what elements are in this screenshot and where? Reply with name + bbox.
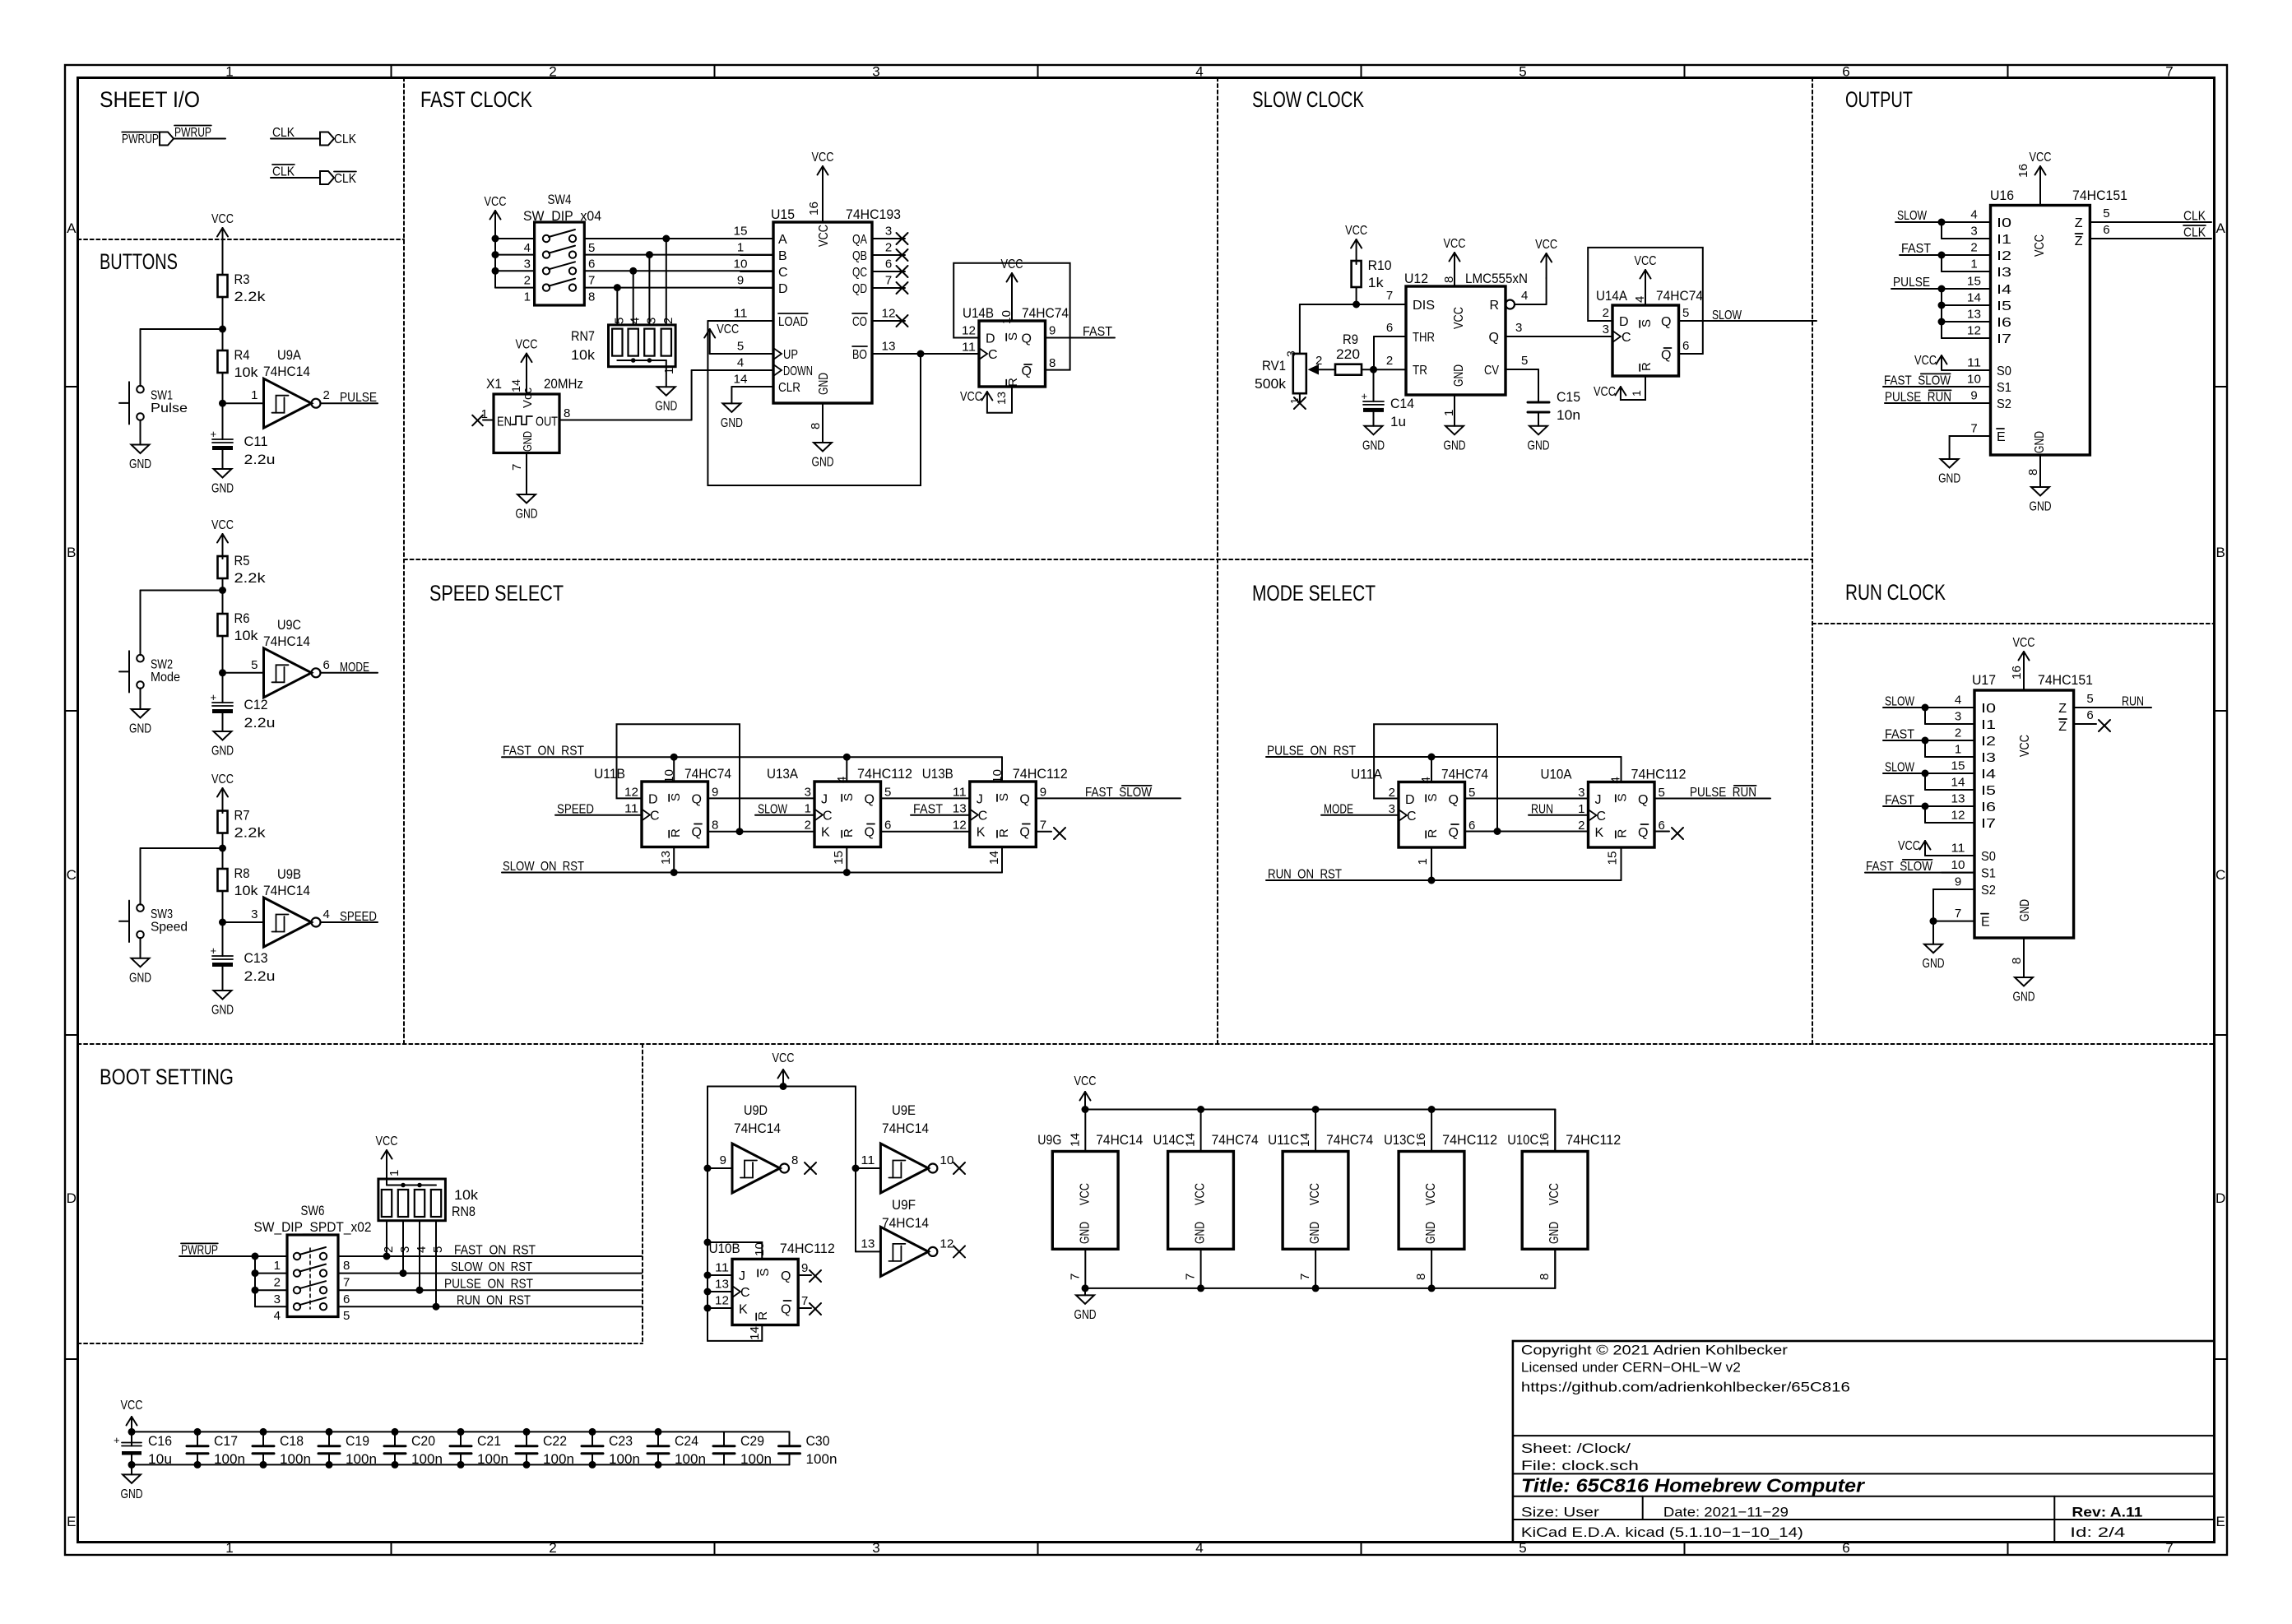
- svg-text:Copyright © 2021 Adrien Kohlbe: Copyright © 2021 Adrien Kohlbecker: [1521, 1342, 1788, 1357]
- svg-text:8: 8: [1049, 356, 1056, 370]
- svg-text:11: 11: [861, 1153, 875, 1167]
- svg-text:100n: 100n: [806, 1451, 837, 1467]
- svg-text:6: 6: [2086, 708, 2093, 722]
- svg-text:74HC112: 74HC112: [1442, 1132, 1497, 1148]
- svg-text:6: 6: [2103, 223, 2109, 237]
- svg-text:74HC14: 74HC14: [263, 883, 310, 898]
- svg-text:VCC: VCC: [211, 773, 234, 786]
- svg-text:U9B: U9B: [277, 866, 301, 882]
- svg-text:GND: GND: [817, 373, 831, 395]
- svg-text:C11: C11: [244, 434, 268, 449]
- svg-text:C22: C22: [543, 1433, 567, 1449]
- svg-text:PULSE_ON_RST: PULSE_ON_RST: [444, 1278, 533, 1292]
- svg-text:6: 6: [323, 658, 330, 672]
- svg-text:74HC74: 74HC74: [1656, 288, 1703, 304]
- svg-text:2: 2: [1970, 241, 1977, 255]
- svg-text:R6: R6: [234, 610, 250, 626]
- svg-text:C21: C21: [477, 1433, 501, 1449]
- svg-text:10: 10: [753, 1242, 767, 1256]
- svg-text:11: 11: [1951, 842, 1965, 856]
- svg-text:12: 12: [1967, 324, 1981, 338]
- svg-text:GND: GND: [129, 457, 151, 471]
- svg-text:3: 3: [251, 907, 258, 921]
- svg-text:220: 220: [1336, 346, 1360, 362]
- svg-text:5: 5: [2086, 692, 2093, 706]
- svg-text:GND: GND: [1528, 438, 1550, 452]
- svg-text:VCC: VCC: [1345, 224, 1367, 238]
- svg-text:10: 10: [1967, 373, 1981, 387]
- svg-text:R: R: [842, 828, 856, 838]
- svg-text:Q: Q: [1022, 332, 1032, 346]
- svg-text:8: 8: [712, 819, 718, 833]
- svg-text:R9: R9: [1343, 332, 1358, 347]
- svg-text:S1: S1: [1981, 867, 1996, 881]
- svg-text:3: 3: [644, 318, 658, 324]
- svg-text:2: 2: [1389, 786, 1395, 800]
- svg-text:16: 16: [1538, 1133, 1552, 1147]
- svg-text:U10C: U10C: [1507, 1132, 1538, 1148]
- svg-text:2: 2: [323, 388, 330, 402]
- svg-text:C: C: [1597, 810, 1607, 824]
- svg-text:U11B: U11B: [594, 766, 625, 782]
- svg-text:1: 1: [1416, 858, 1430, 865]
- svg-text:1: 1: [737, 241, 744, 255]
- svg-text:VCC: VCC: [211, 212, 234, 226]
- svg-text:6: 6: [1842, 64, 1849, 80]
- svg-text:I1: I1: [1981, 718, 1996, 732]
- svg-text:12: 12: [715, 1294, 729, 1308]
- svg-text:3: 3: [1578, 786, 1584, 800]
- svg-text:2: 2: [274, 1276, 281, 1290]
- svg-text:R8: R8: [234, 865, 250, 881]
- svg-text:74HC193: 74HC193: [846, 206, 901, 222]
- svg-text:1: 1: [1578, 802, 1584, 816]
- svg-text:8: 8: [1414, 1274, 1428, 1280]
- svg-text:Q: Q: [865, 793, 875, 807]
- svg-text:RN8: RN8: [452, 1204, 476, 1219]
- svg-text:R: R: [1426, 829, 1440, 838]
- svg-text:CLK: CLK: [272, 165, 295, 179]
- svg-text:2: 2: [885, 241, 892, 255]
- svg-text:U9E: U9E: [892, 1102, 916, 1118]
- svg-text:GND: GND: [721, 416, 743, 430]
- svg-text:1: 1: [1288, 398, 1301, 404]
- svg-text:C: C: [978, 810, 988, 824]
- svg-text:B: B: [2216, 545, 2225, 560]
- svg-text:I2: I2: [1981, 735, 1996, 749]
- svg-text:16: 16: [2010, 666, 2024, 680]
- svg-text:12: 12: [1951, 809, 1965, 823]
- svg-text:2: 2: [549, 1540, 556, 1556]
- svg-text:U13A: U13A: [767, 766, 799, 782]
- svg-text:7: 7: [1970, 422, 1977, 436]
- svg-text:VCC: VCC: [960, 390, 982, 404]
- svg-text:14: 14: [1967, 291, 1981, 305]
- svg-text:SLOW_ON_RST: SLOW_ON_RST: [451, 1260, 532, 1274]
- svg-text:VCC: VCC: [817, 225, 831, 247]
- svg-text:2.2k: 2.2k: [234, 289, 267, 304]
- svg-text:U9A: U9A: [277, 347, 302, 363]
- svg-text:4: 4: [1195, 64, 1203, 80]
- svg-text:SW6: SW6: [301, 1203, 325, 1218]
- svg-text:SHEET I/O: SHEET I/O: [100, 87, 200, 112]
- svg-text:VCC: VCC: [2030, 151, 2052, 165]
- svg-text:1k: 1k: [1368, 275, 1385, 290]
- svg-text:VCC: VCC: [1452, 307, 1466, 329]
- svg-text:Id: 2/4: Id: 2/4: [2070, 1524, 2125, 1540]
- svg-text:GND: GND: [655, 400, 677, 414]
- svg-text:100n: 100n: [214, 1451, 245, 1467]
- svg-text:C15: C15: [1557, 389, 1580, 405]
- svg-text:CLK: CLK: [334, 132, 356, 146]
- svg-text:S: S: [758, 1269, 772, 1277]
- svg-text:C14: C14: [1390, 396, 1414, 411]
- svg-text:9: 9: [801, 1261, 808, 1275]
- svg-text:74HC112: 74HC112: [857, 766, 912, 782]
- svg-text:J: J: [977, 793, 983, 807]
- svg-text:FAST: FAST: [1901, 242, 1931, 256]
- svg-text:RUN_ON_RST: RUN_ON_RST: [457, 1294, 531, 1308]
- svg-text:GND: GND: [1074, 1308, 1097, 1322]
- svg-text:6: 6: [884, 819, 891, 833]
- svg-text:SPEED SELECT: SPEED SELECT: [429, 581, 564, 606]
- svg-text:74HC74: 74HC74: [1022, 305, 1069, 321]
- svg-text:2: 2: [661, 318, 675, 324]
- svg-text:R10: R10: [1368, 258, 1392, 273]
- svg-text:RN7: RN7: [571, 328, 595, 344]
- svg-text:I7: I7: [1997, 332, 2011, 346]
- svg-text:100n: 100n: [609, 1451, 640, 1467]
- svg-text:CV: CV: [1484, 364, 1499, 378]
- svg-text:GND: GND: [211, 482, 234, 496]
- svg-text:VCC: VCC: [516, 338, 538, 352]
- svg-text:VCC: VCC: [1308, 1183, 1322, 1205]
- svg-text:10: 10: [734, 258, 748, 271]
- svg-text:14: 14: [987, 851, 1001, 865]
- svg-text:2: 2: [805, 819, 811, 833]
- svg-text:VCC: VCC: [121, 1399, 143, 1413]
- svg-text:VCC: VCC: [376, 1134, 398, 1148]
- svg-text:VCC: VCC: [773, 1051, 795, 1065]
- svg-text:PULSE_RUN: PULSE_RUN: [1690, 786, 1756, 800]
- svg-text:I0: I0: [1981, 702, 1996, 716]
- svg-text:4: 4: [415, 1246, 429, 1253]
- svg-text:3: 3: [1955, 710, 1961, 724]
- svg-text:8: 8: [809, 423, 823, 429]
- svg-text:A: A: [778, 233, 787, 247]
- svg-text:SPEED: SPEED: [340, 910, 377, 924]
- svg-text:11: 11: [1967, 356, 1981, 370]
- svg-text:74HC112: 74HC112: [1013, 766, 1068, 782]
- svg-text:15: 15: [1951, 759, 1965, 773]
- svg-text:3: 3: [1389, 802, 1395, 816]
- svg-text:2: 2: [1955, 726, 1961, 740]
- svg-text:I0: I0: [1997, 216, 2011, 230]
- svg-text:Q: Q: [781, 1269, 791, 1283]
- svg-text:74HC112: 74HC112: [780, 1241, 835, 1256]
- svg-text:D: D: [1405, 793, 1415, 807]
- svg-text:100n: 100n: [280, 1451, 311, 1467]
- svg-text:5: 5: [1468, 786, 1475, 800]
- svg-text:C23: C23: [609, 1433, 633, 1449]
- svg-text:QD: QD: [852, 282, 867, 296]
- svg-text:RUN: RUN: [2122, 695, 2144, 709]
- svg-text:Q: Q: [1019, 793, 1029, 807]
- svg-text:R: R: [756, 1311, 770, 1320]
- svg-text:1: 1: [225, 1540, 233, 1556]
- svg-text:8: 8: [588, 290, 595, 304]
- svg-text:GND: GND: [211, 745, 234, 759]
- svg-text:R7: R7: [234, 808, 250, 824]
- svg-text:1: 1: [1955, 743, 1961, 757]
- svg-text:SW3: SW3: [151, 907, 173, 921]
- svg-text:VCC: VCC: [1078, 1183, 1092, 1205]
- svg-text:6: 6: [1682, 339, 1689, 353]
- svg-text:I5: I5: [1981, 784, 1996, 798]
- svg-text:C30: C30: [806, 1433, 830, 1449]
- svg-text:Z: Z: [2075, 234, 2083, 248]
- svg-text:B: B: [67, 545, 76, 560]
- svg-text:8: 8: [1538, 1274, 1552, 1280]
- svg-text:GND: GND: [129, 971, 151, 985]
- svg-text:C: C: [740, 1286, 750, 1300]
- svg-text:R: R: [1640, 362, 1654, 371]
- svg-text:U13B: U13B: [922, 766, 953, 782]
- svg-text:CLK: CLK: [2183, 226, 2206, 240]
- svg-text:VCC: VCC: [1444, 237, 1466, 251]
- svg-text:14: 14: [509, 379, 522, 392]
- svg-text:2.2k: 2.2k: [234, 570, 267, 586]
- svg-text:C24: C24: [675, 1433, 698, 1449]
- svg-text:SLOW: SLOW: [1885, 695, 1915, 709]
- svg-text:100n: 100n: [675, 1451, 706, 1467]
- svg-text:9: 9: [720, 1153, 726, 1167]
- svg-text:4: 4: [629, 318, 643, 324]
- svg-text:PULSE_ON_RST: PULSE_ON_RST: [1267, 745, 1356, 759]
- svg-text:U9C: U9C: [277, 617, 301, 633]
- svg-text:16: 16: [2016, 164, 2030, 178]
- svg-text:D: D: [1619, 315, 1629, 329]
- svg-text:10k: 10k: [234, 628, 259, 643]
- svg-text:14: 14: [748, 1326, 762, 1340]
- svg-text:Z: Z: [2075, 216, 2083, 230]
- svg-text:R4: R4: [234, 347, 250, 363]
- svg-text:10u: 10u: [148, 1451, 172, 1467]
- svg-text:U14B: U14B: [963, 305, 994, 321]
- svg-text:CLK: CLK: [334, 172, 356, 186]
- svg-text:1: 1: [274, 1259, 281, 1273]
- svg-text:7: 7: [1184, 1274, 1198, 1280]
- svg-text:5: 5: [2103, 206, 2109, 220]
- svg-text:DIS: DIS: [1413, 299, 1435, 313]
- svg-text:2: 2: [1578, 819, 1584, 833]
- svg-text:GND: GND: [1444, 438, 1466, 452]
- svg-text:Pulse: Pulse: [151, 401, 188, 415]
- svg-text:S: S: [997, 793, 1011, 801]
- svg-text:J: J: [739, 1269, 745, 1283]
- svg-text:https://github.com/adrienkohlb: https://github.com/adrienkohlbecker/65C8…: [1521, 1380, 1850, 1395]
- svg-text:GND: GND: [516, 508, 538, 522]
- svg-text:Title: 65C816 Homebrew Compute: Title: 65C816 Homebrew Computer: [1521, 1475, 1865, 1496]
- svg-text:PWRUP: PWRUP: [181, 1244, 218, 1258]
- svg-text:GND: GND: [812, 456, 834, 470]
- svg-text:VCC: VCC: [1424, 1183, 1438, 1205]
- svg-text:K: K: [1595, 826, 1604, 840]
- svg-text:Q: Q: [1449, 826, 1459, 840]
- svg-text:C18: C18: [280, 1433, 304, 1449]
- svg-text:Date: 2021−11−29: Date: 2021−11−29: [1663, 1505, 1789, 1520]
- svg-text:S: S: [1006, 332, 1020, 341]
- svg-text:Z: Z: [2058, 720, 2067, 734]
- svg-text:3: 3: [872, 1540, 879, 1556]
- svg-text:R3: R3: [234, 271, 250, 287]
- svg-text:GND: GND: [521, 431, 535, 452]
- svg-text:5: 5: [588, 241, 595, 255]
- svg-text:J: J: [1595, 793, 1602, 807]
- svg-text:10k: 10k: [234, 883, 259, 898]
- svg-text:Licensed under CERN−OHL−W v2: Licensed under CERN−OHL−W v2: [1521, 1359, 1741, 1375]
- svg-text:15: 15: [1967, 275, 1981, 289]
- svg-text:7: 7: [1040, 819, 1046, 833]
- svg-text:+: +: [114, 1434, 120, 1446]
- svg-text:2: 2: [549, 64, 556, 80]
- svg-text:R5: R5: [234, 553, 250, 568]
- svg-text:74HC74: 74HC74: [684, 766, 731, 782]
- svg-text:C: C: [1622, 331, 1631, 345]
- svg-text:R: R: [1006, 378, 1020, 387]
- svg-text:16: 16: [807, 202, 821, 216]
- svg-text:C: C: [778, 266, 788, 280]
- svg-text:FAST_SLOW: FAST_SLOW: [1884, 374, 1951, 388]
- svg-text:Sheet: /Clock/: Sheet: /Clock/: [1521, 1441, 1631, 1456]
- svg-text:74HC14: 74HC14: [1096, 1132, 1143, 1148]
- svg-text:I1: I1: [1997, 233, 2011, 247]
- svg-text:VCC: VCC: [1635, 254, 1657, 268]
- svg-text:1: 1: [387, 1170, 401, 1176]
- svg-text:LOAD: LOAD: [778, 315, 808, 329]
- svg-text:VCC: VCC: [2013, 636, 2035, 650]
- svg-text:C17: C17: [214, 1433, 238, 1449]
- svg-text:FAST_ON_RST: FAST_ON_RST: [503, 745, 584, 759]
- svg-text:13: 13: [659, 851, 673, 865]
- svg-text:S1: S1: [1997, 381, 2011, 395]
- svg-text:5: 5: [1682, 306, 1689, 320]
- svg-text:6: 6: [885, 258, 892, 271]
- svg-text:13: 13: [953, 802, 967, 816]
- svg-text:D: D: [2215, 1190, 2225, 1206]
- svg-text:100n: 100n: [740, 1451, 772, 1467]
- svg-text:C: C: [650, 810, 660, 824]
- svg-text:11: 11: [734, 307, 748, 321]
- svg-text:S2: S2: [1997, 397, 2011, 411]
- svg-text:1: 1: [662, 368, 676, 374]
- svg-text:2.2u: 2.2u: [244, 452, 276, 467]
- svg-text:FAST_SLOW: FAST_SLOW: [1085, 786, 1153, 800]
- svg-text:Speed: Speed: [151, 921, 188, 935]
- svg-text:C16: C16: [148, 1433, 172, 1449]
- svg-text:BUTTONS: BUTTONS: [100, 249, 178, 274]
- svg-text:S: S: [1616, 793, 1630, 801]
- svg-text:A: A: [67, 220, 77, 236]
- svg-text:Rev: A.11: Rev: A.11: [2072, 1505, 2142, 1520]
- svg-text:5: 5: [884, 786, 891, 800]
- svg-text:KiCad E.D.A. kicad (5.1.10−1−: KiCad E.D.A. kicad (5.1.10−1−10_14): [1521, 1524, 1803, 1540]
- svg-text:8: 8: [791, 1153, 798, 1167]
- svg-text:S: S: [669, 793, 683, 801]
- svg-text:5: 5: [1519, 64, 1526, 80]
- svg-text:Q: Q: [781, 1302, 791, 1316]
- svg-text:13: 13: [1967, 308, 1981, 322]
- svg-text:16: 16: [1414, 1133, 1428, 1147]
- svg-text:4: 4: [1970, 208, 1977, 222]
- svg-text:U14A: U14A: [1596, 288, 1628, 304]
- svg-text:VCC: VCC: [1547, 1183, 1561, 1205]
- svg-text:10: 10: [1951, 858, 1965, 872]
- svg-text:PULSE: PULSE: [1893, 276, 1930, 290]
- svg-text:B: B: [778, 249, 787, 263]
- svg-text:5: 5: [251, 658, 258, 672]
- svg-text:74HC14: 74HC14: [882, 1215, 929, 1231]
- svg-text:1: 1: [481, 407, 488, 421]
- svg-text:5: 5: [612, 318, 626, 324]
- svg-text:1: 1: [251, 388, 258, 402]
- svg-text:13: 13: [715, 1278, 729, 1292]
- svg-text:2.2u: 2.2u: [244, 968, 276, 984]
- svg-text:RUN_ON_RST: RUN_ON_RST: [1268, 868, 1342, 882]
- svg-text:Z: Z: [2058, 702, 2067, 716]
- svg-text:U11C: U11C: [1268, 1132, 1299, 1148]
- svg-text:Q: Q: [1489, 331, 1499, 345]
- svg-text:OUTPUT: OUTPUT: [1845, 87, 1913, 112]
- svg-text:9: 9: [1049, 324, 1056, 338]
- svg-text:10: 10: [940, 1153, 953, 1167]
- svg-text:VCC: VCC: [717, 322, 739, 336]
- svg-text:14: 14: [1951, 776, 1965, 790]
- svg-text:SLOW_ON_RST: SLOW_ON_RST: [503, 860, 584, 874]
- svg-text:5: 5: [737, 340, 744, 354]
- svg-text:4: 4: [1195, 1540, 1203, 1556]
- svg-text:C29: C29: [740, 1433, 764, 1449]
- svg-text:C: C: [67, 867, 77, 883]
- svg-text:SLOW: SLOW: [1712, 309, 1742, 322]
- svg-text:15: 15: [1606, 851, 1620, 865]
- svg-text:74HC14: 74HC14: [734, 1121, 781, 1136]
- svg-text:VCC: VCC: [1074, 1074, 1097, 1088]
- svg-text:2: 2: [524, 273, 531, 287]
- svg-text:11: 11: [953, 786, 967, 800]
- svg-text:3: 3: [805, 786, 811, 800]
- svg-text:7: 7: [885, 274, 892, 288]
- svg-text:100n: 100n: [411, 1451, 443, 1467]
- svg-text:Q: Q: [865, 826, 875, 840]
- svg-text:U10A: U10A: [1541, 767, 1573, 782]
- svg-text:12: 12: [953, 819, 967, 833]
- svg-text:DOWN: DOWN: [783, 364, 813, 378]
- svg-text:2.2k: 2.2k: [234, 825, 267, 841]
- svg-text:3: 3: [1284, 350, 1297, 357]
- svg-text:8: 8: [2010, 958, 2024, 964]
- svg-text:J: J: [821, 793, 828, 807]
- svg-text:E: E: [1981, 916, 1990, 930]
- svg-text:SW_DIP_SPDT_x02: SW_DIP_SPDT_x02: [254, 1219, 372, 1235]
- svg-text:GND: GND: [1452, 364, 1466, 387]
- svg-text:PWRUP: PWRUP: [122, 132, 159, 146]
- svg-text:CLR: CLR: [778, 381, 800, 395]
- svg-text:1: 1: [225, 64, 233, 80]
- svg-text:VCC: VCC: [1535, 238, 1557, 252]
- svg-text:20MHz: 20MHz: [544, 376, 583, 392]
- svg-text:C20: C20: [411, 1433, 435, 1449]
